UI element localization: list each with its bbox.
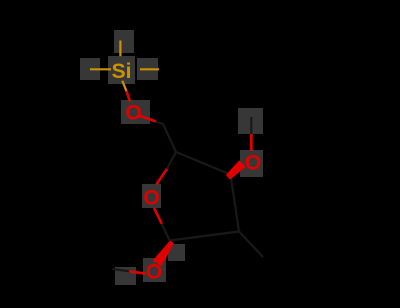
bond C4-ringO dark half [167,152,176,169]
bond Si-O upper half (gold) [122,81,126,91]
bond C2-C3 [231,175,240,232]
bond OMe methyl dark half [113,269,130,271]
bond ringO-C1 half (red) [154,208,162,224]
label plate O of OTMS [121,100,150,124]
label plate CH3 top of TMS [114,30,134,53]
bond C3-C4 [176,152,231,175]
bond ringO-C1 dark half [162,224,170,241]
wedge C1-OMe (red) [154,242,173,266]
bond OMe-CH3 half (red) [129,271,146,273]
svg-text:O: O [146,260,162,283]
bond benzyl CH2 dark half [250,117,252,134]
faint skeleton (near-invisible dark bonds) [113,117,264,271]
label plate O of OBn [240,150,263,177]
bond Si-CH3 right (gold) [140,68,159,70]
label plate CH3 end of OMe [115,267,136,285]
bond C1-C2 [170,232,240,241]
label plate CH3 left of TMS [80,58,100,80]
bond Si-CH3 left (gold) [90,68,111,70]
svg-text:O: O [245,151,261,174]
bond OBn O-CH2 half (red) [250,134,253,151]
bond C5-C4 [163,124,176,152]
label plate ring O [142,184,161,208]
bond O-C5 dark half [156,122,163,125]
bond Si-O lower half (red) [126,91,130,102]
label plate Si [108,56,135,84]
svg-text:O: O [143,186,159,209]
bond Si-CH3 top (gold) [119,41,121,57]
label plate CH2 of benzyl [238,108,263,134]
bond O-C5 half (red) [138,115,157,122]
bond C2 stub [239,232,263,258]
svg-text:Si: Si [112,60,132,83]
bond ringO-C4 half (red) [156,169,167,185]
label plate O of OMe [143,258,166,282]
label plate C1 position [168,244,185,261]
label plate CH3 right of TMS [137,58,158,80]
wedge C3-OBn (red) [227,162,244,179]
svg-text:O: O [125,101,141,124]
